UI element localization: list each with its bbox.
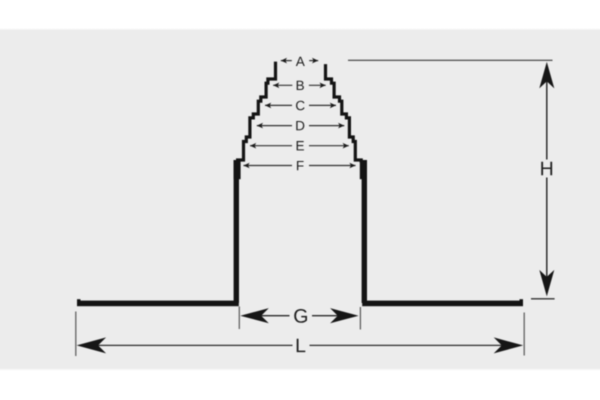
dimension A	[281, 60, 318, 62]
label D	[296, 121, 304, 130]
dimension E	[250, 145, 349, 147]
dimension L extension lines	[76, 312, 524, 357]
label F	[297, 161, 304, 170]
stepped profile left outline	[238, 62, 276, 163]
dimension G	[259, 315, 340, 317]
base flange left	[77, 301, 239, 307]
dimension H vertical line	[546, 80, 548, 277]
label H	[541, 162, 552, 175]
dimension F	[243, 165, 355, 167]
dimension D	[257, 125, 345, 127]
dimension G extension lines	[239, 307, 360, 330]
dimension B	[273, 84, 326, 86]
body wall right	[362, 160, 367, 303]
dimension C	[265, 104, 336, 106]
dimension H bottom tick	[531, 298, 555, 300]
label G	[294, 309, 307, 323]
label L	[297, 339, 306, 352]
dimension L	[97, 344, 503, 346]
label C	[296, 101, 305, 111]
label A	[296, 57, 305, 66]
stepped profile right outline	[326, 64, 362, 162]
label B	[297, 81, 304, 90]
label E	[297, 141, 304, 150]
base flange right	[362, 301, 523, 307]
body wall left	[234, 160, 239, 303]
rib at level F right	[360, 160, 367, 179]
dimension H reference line	[348, 59, 553, 61]
dimension H arrowheads	[539, 62, 554, 297]
rib at level F left	[234, 160, 241, 179]
